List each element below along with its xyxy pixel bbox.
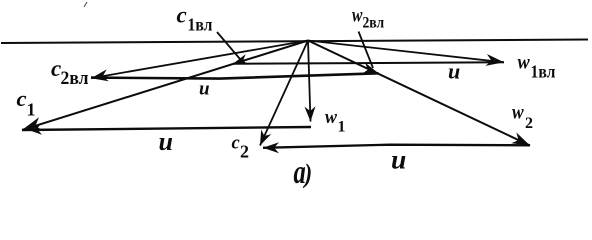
vector w1vl shaft [308,41,504,63]
svg-text:1: 1 [27,100,36,120]
svg-text:1вл: 1вл [531,62,556,82]
leader from label w2vl [359,32,374,69]
wire: horizontal reference line (u direction) [1,40,588,44]
vector c2vl shaft [91,41,308,79]
arrowhead u left at c1 tip [25,123,42,135]
vector c1 shaft [22,41,308,131]
svg-text:w: w [325,106,337,128]
svg-text:c: c [17,86,27,111]
svg-text:1: 1 [338,119,346,136]
svg-text:2вл: 2вл [61,67,89,88]
arrowhead w1vl [485,54,504,66]
vector w1 shaft [308,41,311,122]
arrowhead w1 [305,106,316,121]
wire: u segment from c2vl tip to w2vl tip [91,73,379,78]
label w1 [325,106,346,135]
svg-text:w: w [518,50,531,74]
svg-text:2: 2 [240,142,249,162]
svg-text:u: u [159,127,173,156]
arrowhead c1vl at node E [233,54,249,65]
arrowhead u pointing left at c2 tip [263,142,279,153]
svg-text:1вл: 1вл [188,14,213,34]
wire: u segment from c1vl tip to w1vl tip [233,62,504,64]
arrowhead w2vl at node H [361,63,378,75]
label c1vl [177,2,213,34]
arrowhead c1 [22,117,43,130]
wire: u segment from c1 tip to w1 tip [22,127,311,130]
svg-text:w: w [512,101,524,124]
svg-text:u: u [199,79,210,100]
svg-text:): ) [303,160,312,188]
leader from label c1vl [217,32,240,59]
svg-text:2: 2 [525,115,533,132]
arrowhead c2 [260,130,271,146]
wire: u segment from w2 tip to c2 tip [263,145,530,148]
label c1 [17,86,36,119]
label c2 [232,134,250,162]
svg-text:c: c [232,134,240,154]
label w2 [512,101,533,132]
vector c2 shaft [260,41,308,146]
label w1vl [518,50,556,81]
vector w2 shaft (passes through w2vl tip H) [308,41,530,146]
arrowhead c2vl [91,69,109,81]
arrowhead w2 [511,132,530,145]
label w2vl [352,3,384,31]
svg-text:u: u [448,59,460,84]
svg-text:2вл: 2вл [363,15,385,32]
svg-text:c: c [177,2,187,27]
svg-text:w: w [352,3,363,25]
speck top left [84,2,87,7]
svg-text:u: u [391,143,406,174]
label c2vl [51,56,89,88]
